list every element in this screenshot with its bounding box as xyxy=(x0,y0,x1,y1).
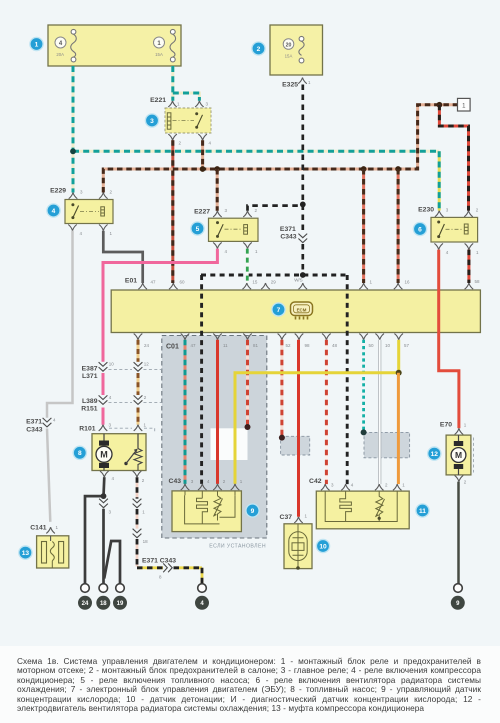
E229 bottom pins 4,1 xyxy=(68,225,77,231)
optional connector patch (left) xyxy=(281,436,310,455)
svg-text:15A: 15A xyxy=(155,52,163,57)
connector on ground wire xyxy=(99,499,108,508)
svg-text:ECM: ECM xyxy=(297,307,307,312)
junction dot node-1 branch xyxy=(437,102,443,108)
relay E221 (main relay) xyxy=(165,108,211,133)
svg-text:47: 47 xyxy=(191,343,197,348)
svg-text:48: 48 xyxy=(332,343,338,348)
item 12 badge xyxy=(427,446,442,461)
svg-text:9: 9 xyxy=(251,508,255,515)
svg-text:6: 6 xyxy=(418,226,422,233)
ground bridge to 19 (black) xyxy=(104,541,120,584)
fuel pump R101 (item 8) xyxy=(92,434,146,471)
svg-text:C01: C01 xyxy=(166,344,179,351)
svg-text:3: 3 xyxy=(150,118,154,125)
wire teal bus horizontal xyxy=(73,150,439,153)
pump level sender xyxy=(137,434,139,449)
knock sensor C37 (item 10) xyxy=(284,524,312,569)
wire E01 pin24 to fuel pump pin 1 (tan-brown dashed) xyxy=(137,340,140,425)
wire E230 pin4 to E70 pin1 (red) xyxy=(439,250,459,429)
fuse F1 15A xyxy=(170,29,176,62)
wire fuse F1 to E221 pins 1,3 (teal dashed) xyxy=(173,66,200,101)
wire brown bus drop to ECM pin 16 xyxy=(397,169,400,283)
item 4 badge xyxy=(46,203,61,218)
svg-text:E371: E371 xyxy=(26,419,42,426)
fuse box 2 (cabin, E325) xyxy=(270,25,323,75)
wire E325 to dashed power branch (black dashed) xyxy=(301,85,304,276)
ground point 4 xyxy=(195,596,209,610)
svg-text:2: 2 xyxy=(257,46,261,53)
wire E227 pin4 to fuel pump pin 3 (pink) xyxy=(103,249,217,425)
wire orange to C42 pin1 xyxy=(397,373,400,484)
svg-text:57: 57 xyxy=(404,343,410,348)
pump bottom pins 4,2 xyxy=(100,471,109,477)
item 5 badge xyxy=(190,221,205,236)
svg-text:16: 16 xyxy=(405,280,411,285)
svg-text:15A: 15A xyxy=(285,54,293,59)
relay E229 (A/C compressor relay) xyxy=(65,200,113,224)
brown bus horizontal + left riser from E229 pin2 + right branch to node 1 xyxy=(103,105,457,193)
wire teal bus to E230 pin3 (teal on yellow) xyxy=(438,151,441,210)
svg-text:12: 12 xyxy=(431,451,439,458)
wire C01 pin52 (red dashed, optional) xyxy=(280,340,283,438)
C01 bottom pins xyxy=(181,334,190,340)
wire C01 pin11 to C43 pin2 (red) xyxy=(216,340,219,484)
oxygen sensor C43 (item 9) xyxy=(172,491,241,532)
connector E371/C343 on E325 wire xyxy=(298,234,307,243)
item 1 badge xyxy=(29,37,44,52)
wire E229 pin4 to C141 (light gray) xyxy=(47,231,73,522)
svg-text:E371: E371 xyxy=(280,226,296,233)
svg-text:29: 29 xyxy=(271,280,277,285)
E230 bottom pins 4,1 xyxy=(434,243,443,249)
svg-text:M: M xyxy=(455,450,462,460)
wire C01 pin48 to C42 pin3 (red-white dashed) xyxy=(325,340,328,484)
wire E227 pin2 to E325 wire (black dashed) xyxy=(248,206,303,211)
svg-text:7: 7 xyxy=(277,307,281,314)
wire fuse F4 to E229 pin 3 (teal dashed) xyxy=(72,66,75,193)
svg-text:81: 81 xyxy=(253,343,259,348)
wire C01 pin81 (red dashed, optional) xyxy=(246,340,249,427)
junction dot yellow/orange xyxy=(396,370,402,376)
svg-text:47: 47 xyxy=(151,280,157,285)
item 7 badge xyxy=(271,302,286,317)
yellow bus to C43 pin1 xyxy=(235,373,399,484)
wire C01 pin10 to C42 pin2 (white-gray) xyxy=(378,340,381,484)
svg-text:ЕСЛИ УСТАНОВЛЕН: ЕСЛИ УСТАНОВЛЕН xyxy=(209,544,266,550)
relay E227 (fuel pump relay) xyxy=(209,218,259,241)
svg-text:L371: L371 xyxy=(82,373,98,380)
relay E230 (radiator fan relay) xyxy=(431,217,478,242)
svg-text:4: 4 xyxy=(52,208,56,215)
svg-text:5: 5 xyxy=(196,226,200,233)
junction dot E325 wire to ECM W/S xyxy=(300,272,306,278)
svg-text:98: 98 xyxy=(305,343,311,348)
ground point 24 xyxy=(78,596,92,610)
junction dot ground wire xyxy=(101,493,107,499)
item 2 badge xyxy=(251,41,266,56)
dashed power rail to C43 pin4 / C42 pin4 (black dashed) xyxy=(201,275,347,484)
wire brown bus drop to ECM pin 1 xyxy=(362,169,365,283)
node 1 square xyxy=(458,98,471,111)
white patch inside shaded region xyxy=(211,428,248,460)
svg-text:60: 60 xyxy=(180,280,186,285)
wire C01 pin57 yellow to junction xyxy=(397,340,400,373)
svg-text:E230: E230 xyxy=(418,207,434,214)
E227 bottom pins 4,1 xyxy=(213,242,222,248)
fuse F4 20A xyxy=(71,29,77,62)
item 10 badge xyxy=(316,539,331,554)
E221 bottom pins 2,4 xyxy=(168,134,177,140)
svg-text:58: 58 xyxy=(475,279,481,284)
ground terminal circles xyxy=(81,584,463,593)
svg-text:R101: R101 xyxy=(79,426,95,433)
svg-text:C343: C343 xyxy=(280,234,296,241)
svg-text:20A: 20A xyxy=(56,52,64,57)
wire pump pin2 down (black-pink dashed) xyxy=(136,477,139,566)
ECM icon xyxy=(291,302,313,320)
item 9 badge xyxy=(245,503,260,518)
optional-equipment shaded region (ЕСЛИ УСТАНОВЛЕН) xyxy=(162,336,267,539)
ECU E01/C01 box (item 7, ЭБУ) xyxy=(111,290,480,333)
fuse/relay box 1 (engine bay) xyxy=(48,25,181,66)
svg-text:24: 24 xyxy=(82,601,89,607)
svg-text:18: 18 xyxy=(100,601,107,607)
svg-text:C43: C43 xyxy=(169,478,182,485)
svg-text:E227: E227 xyxy=(194,209,210,216)
svg-text:10: 10 xyxy=(319,543,327,550)
item 6 badge xyxy=(413,222,428,237)
connector E371/C343 on C141 wire xyxy=(43,418,52,427)
svg-text:E229: E229 xyxy=(50,188,66,195)
svg-text:11: 11 xyxy=(419,508,426,515)
svg-text:E387: E387 xyxy=(82,366,98,373)
svg-text:C42: C42 xyxy=(309,478,322,485)
junction dot on E325 wire at relay bus xyxy=(300,202,306,208)
svg-text:10: 10 xyxy=(385,343,391,348)
svg-text:50: 50 xyxy=(369,343,375,348)
svg-text:24: 24 xyxy=(144,343,150,348)
wire E227 pin1 to ECM pin 15 (green dashed) xyxy=(246,249,249,283)
item 11 badge xyxy=(415,503,430,518)
svg-text:1: 1 xyxy=(35,41,39,48)
svg-text:R151: R151 xyxy=(81,406,97,413)
svg-text:E325: E325 xyxy=(282,82,298,89)
svg-text:52: 52 xyxy=(286,343,292,348)
svg-text:12: 12 xyxy=(144,362,150,367)
wire brown bus drop to E227 pin 3 xyxy=(216,169,219,211)
svg-text:C141: C141 xyxy=(30,525,46,532)
wire E229 pin1 to ECM pin 47 (dark gray) xyxy=(103,231,142,283)
item 8 badge xyxy=(73,446,88,461)
svg-text:E371 C343: E371 C343 xyxy=(142,558,176,565)
svg-text:M: M xyxy=(100,450,108,460)
svg-text:C37: C37 xyxy=(280,514,293,521)
junction dot teal bus xyxy=(70,148,76,154)
svg-text:E221: E221 xyxy=(150,97,166,104)
wire C01 pin98 to C37 pin1 (red) xyxy=(297,340,300,517)
svg-text:19: 19 xyxy=(117,601,124,607)
pump motor M xyxy=(103,434,105,471)
item 13 badge xyxy=(18,545,33,560)
svg-text:E01: E01 xyxy=(125,278,137,285)
ground point 9 xyxy=(451,596,465,610)
wire E371/C343 to ground 4 (black-yellow dashed) xyxy=(137,568,202,584)
radiator fan motor E70 (item 12) xyxy=(446,435,471,475)
wire node-1 dot to E230 pin 2 (red-black dashed) xyxy=(439,105,468,211)
junction dots on brown bus xyxy=(200,166,206,172)
svg-text:8: 8 xyxy=(78,450,82,457)
svg-text:18: 18 xyxy=(143,539,149,544)
ECM bottom pin E01-24 xyxy=(134,334,143,340)
item 3 badge xyxy=(145,113,160,128)
A/C compressor clutch C141 (item 13) xyxy=(37,536,69,568)
wire E221 pin2 to ECM pin 60 (red-brown dashed) xyxy=(171,140,174,283)
ground point 19 xyxy=(113,596,127,610)
svg-text:13: 13 xyxy=(22,550,30,557)
wire E230 pin1 to ECM pin 58 (red-black dashed) xyxy=(467,250,470,283)
svg-text:W/S: W/S xyxy=(294,278,303,283)
svg-text:C343: C343 xyxy=(26,427,42,434)
svg-text:20: 20 xyxy=(286,42,292,48)
svg-text:10: 10 xyxy=(109,362,115,367)
wire pump pin4 to grounds 24/18 (black) xyxy=(85,477,104,583)
ground point 18 xyxy=(96,596,110,610)
svg-text:L389: L389 xyxy=(82,398,98,405)
fuse F20 15A xyxy=(299,36,304,63)
optional connector patch (right) xyxy=(364,432,410,457)
wire C01 pin50 (teal dotted, optional) xyxy=(362,340,365,433)
svg-text:15: 15 xyxy=(252,280,258,285)
wire E70 pin2 to ground 9 (dark) xyxy=(457,482,460,584)
wire E221 pin4 down to brown bus xyxy=(201,140,204,169)
svg-text:11: 11 xyxy=(223,343,228,348)
wire C01 pin47 to C43 pin3 (teal-red dashed) xyxy=(184,340,187,484)
svg-text:E70: E70 xyxy=(440,422,452,429)
diagnostic oxygen sensor C42 (item 11) xyxy=(316,491,409,529)
E70 bottom pin 2 xyxy=(455,475,464,481)
